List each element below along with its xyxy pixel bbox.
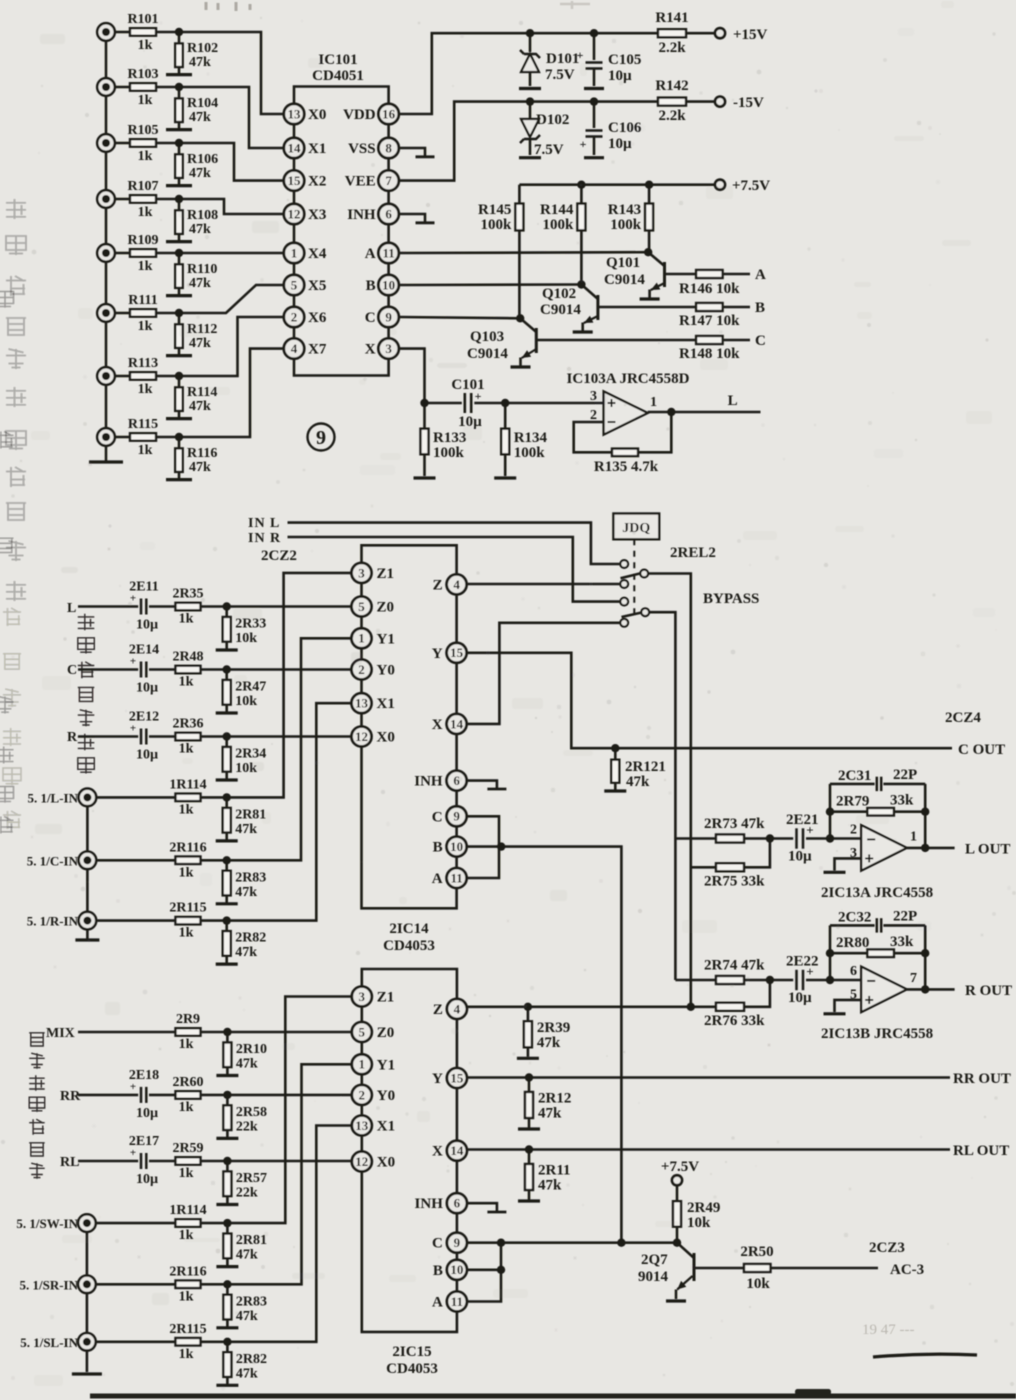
svg-text:X6: X6 bbox=[308, 310, 327, 326]
svg-text:1: 1 bbox=[359, 1057, 366, 1072]
svg-text:7.5V: 7.5V bbox=[534, 142, 564, 158]
svg-text:5. 1/R-IN: 5. 1/R-IN bbox=[27, 914, 79, 929]
svg-text:RR OUT: RR OUT bbox=[953, 1071, 1011, 1087]
svg-text:L: L bbox=[728, 393, 738, 409]
svg-text:+: + bbox=[130, 723, 136, 735]
svg-text:15: 15 bbox=[450, 1070, 464, 1085]
svg-text:2R48: 2R48 bbox=[172, 650, 203, 665]
svg-text:4: 4 bbox=[291, 341, 298, 356]
svg-text:12: 12 bbox=[355, 729, 368, 744]
svg-text:IC101: IC101 bbox=[318, 52, 357, 68]
svg-text:Z0: Z0 bbox=[377, 600, 395, 616]
svg-text:CD4051: CD4051 bbox=[312, 68, 364, 84]
svg-text:+: + bbox=[577, 48, 584, 62]
svg-text:2R82: 2R82 bbox=[236, 1352, 267, 1367]
svg-text:1k: 1k bbox=[179, 675, 194, 690]
svg-text:+7.5V: +7.5V bbox=[661, 1159, 699, 1175]
svg-text:10k: 10k bbox=[235, 631, 257, 646]
svg-text:L: L bbox=[67, 601, 76, 616]
svg-text:5: 5 bbox=[359, 1024, 366, 1039]
svg-text:B: B bbox=[433, 840, 443, 856]
svg-text:2R9: 2R9 bbox=[176, 1012, 200, 1027]
svg-text:1k: 1k bbox=[138, 149, 153, 164]
svg-text:2C32: 2C32 bbox=[838, 909, 871, 925]
svg-text:7.5V: 7.5V bbox=[545, 67, 575, 83]
svg-text:X0: X0 bbox=[308, 107, 326, 123]
svg-text:CD4053: CD4053 bbox=[383, 938, 435, 954]
svg-text:1k: 1k bbox=[179, 1166, 194, 1181]
svg-text:2: 2 bbox=[850, 823, 857, 838]
svg-text:MIX: MIX bbox=[46, 1026, 75, 1041]
svg-text:X0: X0 bbox=[377, 730, 395, 746]
svg-text:X4: X4 bbox=[308, 246, 327, 262]
svg-text:10µ: 10µ bbox=[788, 990, 812, 1006]
svg-text:X: X bbox=[432, 717, 443, 733]
svg-text:3: 3 bbox=[359, 989, 366, 1004]
svg-text:10: 10 bbox=[450, 1262, 463, 1277]
svg-text:2R115: 2R115 bbox=[169, 901, 206, 916]
svg-text:X: X bbox=[432, 1144, 443, 1160]
svg-text:Y0: Y0 bbox=[377, 1088, 395, 1104]
svg-text:100k: 100k bbox=[610, 217, 642, 233]
svg-text:2CZ3: 2CZ3 bbox=[869, 1240, 905, 1256]
svg-text:R134: R134 bbox=[514, 430, 548, 446]
svg-text:47k: 47k bbox=[538, 1106, 562, 1122]
svg-text:2Q7: 2Q7 bbox=[641, 1252, 668, 1268]
svg-text:1: 1 bbox=[650, 395, 657, 410]
svg-text:R111: R111 bbox=[128, 293, 158, 308]
svg-text:+: + bbox=[806, 964, 813, 979]
svg-text:2: 2 bbox=[359, 1087, 366, 1102]
svg-text:2R116: 2R116 bbox=[169, 1264, 206, 1279]
svg-text:5. 1/SW-IN: 5. 1/SW-IN bbox=[16, 1216, 78, 1231]
svg-text:13: 13 bbox=[355, 1118, 369, 1133]
svg-text:47k: 47k bbox=[538, 1178, 562, 1194]
svg-text:2R81: 2R81 bbox=[236, 1233, 267, 1248]
svg-text:C105: C105 bbox=[608, 52, 641, 68]
svg-text:6: 6 bbox=[454, 1196, 461, 1211]
svg-text:1k: 1k bbox=[179, 1347, 194, 1362]
svg-text:X1: X1 bbox=[308, 141, 326, 157]
svg-text:1: 1 bbox=[910, 830, 917, 845]
svg-text:3: 3 bbox=[385, 341, 392, 356]
svg-text:C9014: C9014 bbox=[540, 302, 581, 318]
svg-text:-15V: -15V bbox=[733, 95, 764, 111]
svg-text:2R82: 2R82 bbox=[235, 931, 266, 946]
svg-text:47k: 47k bbox=[189, 336, 211, 351]
svg-text:C: C bbox=[432, 809, 443, 825]
svg-text:3: 3 bbox=[358, 565, 365, 580]
svg-text:X0: X0 bbox=[377, 1155, 395, 1171]
svg-text:1k: 1k bbox=[179, 865, 194, 880]
svg-text:C9014: C9014 bbox=[467, 346, 508, 362]
svg-text:2R49: 2R49 bbox=[687, 1200, 720, 1216]
svg-text:2R80: 2R80 bbox=[836, 935, 869, 951]
svg-text:IN R: IN R bbox=[248, 531, 281, 546]
svg-text:+7.5V: +7.5V bbox=[732, 178, 770, 194]
svg-text:14: 14 bbox=[450, 716, 464, 731]
svg-text:6: 6 bbox=[850, 964, 857, 979]
svg-text:10µ: 10µ bbox=[136, 618, 158, 633]
svg-text:1k: 1k bbox=[138, 205, 153, 220]
svg-text:2R35: 2R35 bbox=[172, 587, 203, 602]
svg-text:X1: X1 bbox=[377, 696, 395, 712]
svg-text:10µ: 10µ bbox=[608, 136, 632, 152]
svg-text:16: 16 bbox=[382, 106, 396, 121]
svg-text:R108: R108 bbox=[187, 208, 218, 223]
svg-text:2R79: 2R79 bbox=[836, 794, 869, 810]
svg-text:13: 13 bbox=[355, 696, 369, 711]
svg-text:+: + bbox=[130, 656, 136, 668]
svg-text:2R50: 2R50 bbox=[740, 1244, 773, 1260]
svg-text:2IC13B JRC4558: 2IC13B JRC4558 bbox=[821, 1026, 933, 1042]
svg-text:2R36: 2R36 bbox=[172, 717, 203, 732]
svg-text:1R114: 1R114 bbox=[169, 1203, 206, 1218]
svg-text:22k: 22k bbox=[236, 1186, 258, 1201]
svg-text:Q102: Q102 bbox=[542, 286, 576, 302]
svg-text:2R34: 2R34 bbox=[235, 747, 266, 762]
svg-text:1k: 1k bbox=[179, 1037, 194, 1052]
svg-text:10µ: 10µ bbox=[788, 849, 812, 865]
svg-text:2R75 33k: 2R75 33k bbox=[704, 873, 765, 889]
svg-text:INH: INH bbox=[415, 1196, 444, 1212]
svg-text:2R74 47k: 2R74 47k bbox=[704, 958, 765, 974]
svg-text:Z: Z bbox=[433, 1002, 443, 1018]
svg-text:8: 8 bbox=[385, 140, 392, 155]
svg-text:2R121: 2R121 bbox=[625, 759, 666, 775]
svg-text:4: 4 bbox=[453, 577, 460, 592]
svg-text:2R57: 2R57 bbox=[236, 1171, 267, 1186]
svg-text:47k: 47k bbox=[537, 1035, 561, 1051]
svg-text:R141: R141 bbox=[655, 10, 688, 26]
svg-text:11: 11 bbox=[451, 1294, 463, 1309]
svg-text:1k: 1k bbox=[179, 612, 194, 627]
svg-text:Y1: Y1 bbox=[377, 1057, 395, 1073]
svg-text:47k: 47k bbox=[189, 166, 211, 181]
svg-text:10µ: 10µ bbox=[136, 681, 158, 696]
svg-text:R146 10k: R146 10k bbox=[679, 281, 740, 297]
svg-text:2R83: 2R83 bbox=[235, 870, 266, 885]
svg-text:X1: X1 bbox=[377, 1119, 395, 1135]
svg-text:R115: R115 bbox=[128, 417, 158, 432]
svg-text:VEE: VEE bbox=[345, 174, 376, 190]
svg-text:100k: 100k bbox=[481, 217, 513, 233]
svg-text:2R115: 2R115 bbox=[169, 1322, 206, 1337]
svg-text:+15V: +15V bbox=[733, 27, 768, 43]
svg-text:10k: 10k bbox=[235, 694, 257, 709]
svg-text:2IC14: 2IC14 bbox=[389, 921, 429, 937]
svg-text:2R39: 2R39 bbox=[537, 1020, 570, 1036]
svg-text:14: 14 bbox=[450, 1143, 464, 1158]
svg-text:2R12: 2R12 bbox=[538, 1091, 571, 1107]
svg-text:14: 14 bbox=[288, 140, 302, 155]
svg-text:RL: RL bbox=[60, 1155, 79, 1170]
svg-text:2R58: 2R58 bbox=[236, 1105, 267, 1120]
svg-text:INH: INH bbox=[414, 774, 443, 790]
svg-text:R102: R102 bbox=[187, 41, 218, 56]
svg-text:9: 9 bbox=[454, 1235, 461, 1250]
svg-text:2R10: 2R10 bbox=[236, 1042, 267, 1057]
svg-text:47k: 47k bbox=[189, 460, 211, 475]
svg-text:9: 9 bbox=[385, 309, 392, 324]
svg-text:1k: 1k bbox=[138, 38, 153, 53]
svg-text:7: 7 bbox=[910, 971, 917, 986]
svg-text:22k: 22k bbox=[236, 1119, 258, 1134]
svg-text:Q103: Q103 bbox=[470, 329, 504, 345]
svg-text:2R81: 2R81 bbox=[235, 807, 266, 822]
svg-text:R105: R105 bbox=[127, 123, 158, 138]
svg-text:22P: 22P bbox=[893, 908, 917, 924]
svg-text:Y0: Y0 bbox=[377, 663, 395, 679]
svg-text:X2: X2 bbox=[308, 174, 326, 190]
svg-text:2R76 33k: 2R76 33k bbox=[704, 1013, 765, 1029]
svg-text:9: 9 bbox=[316, 427, 326, 449]
svg-text:BYPASS: BYPASS bbox=[703, 591, 759, 607]
svg-text:2: 2 bbox=[291, 309, 298, 324]
svg-text:C9014: C9014 bbox=[604, 272, 645, 288]
svg-text:47k: 47k bbox=[189, 276, 211, 291]
svg-text:47k: 47k bbox=[189, 110, 211, 125]
svg-text:IN L: IN L bbox=[248, 516, 280, 531]
svg-text:10: 10 bbox=[450, 839, 463, 854]
svg-text:47k: 47k bbox=[235, 885, 257, 900]
svg-text:5. 1/C-IN: 5. 1/C-IN bbox=[27, 853, 79, 868]
svg-text:15: 15 bbox=[450, 645, 464, 660]
svg-text:2IC15: 2IC15 bbox=[392, 1344, 431, 1360]
svg-text:100k: 100k bbox=[514, 445, 546, 461]
svg-text:Z: Z bbox=[433, 577, 443, 593]
svg-text:47k: 47k bbox=[236, 1057, 258, 1072]
svg-text:A: A bbox=[755, 267, 766, 283]
svg-text:10µ: 10µ bbox=[136, 1106, 158, 1121]
svg-text:1k: 1k bbox=[138, 443, 153, 458]
svg-text:Z0: Z0 bbox=[377, 1025, 395, 1041]
svg-text:C: C bbox=[432, 1236, 443, 1252]
svg-text:22P: 22P bbox=[893, 767, 917, 783]
svg-text:R110: R110 bbox=[187, 262, 217, 277]
svg-text:R113: R113 bbox=[128, 356, 158, 371]
svg-text:R: R bbox=[67, 730, 78, 745]
svg-text:+: + bbox=[806, 823, 813, 838]
svg-text:2CZ4: 2CZ4 bbox=[945, 710, 981, 726]
svg-text:47k: 47k bbox=[626, 774, 650, 790]
svg-text:R144: R144 bbox=[540, 202, 574, 218]
svg-text:2R116: 2R116 bbox=[169, 840, 206, 855]
svg-text:Y: Y bbox=[432, 1071, 443, 1087]
svg-text:11: 11 bbox=[382, 245, 394, 260]
svg-text:AC-3: AC-3 bbox=[890, 1262, 924, 1278]
svg-text:B: B bbox=[755, 300, 765, 316]
svg-text:Q101: Q101 bbox=[606, 255, 640, 271]
svg-text:R OUT: R OUT bbox=[965, 983, 1012, 999]
svg-text:B: B bbox=[366, 278, 376, 294]
svg-text:47k: 47k bbox=[189, 55, 211, 70]
svg-text:47k: 47k bbox=[236, 1248, 258, 1263]
svg-text:5: 5 bbox=[358, 599, 365, 614]
svg-text:C: C bbox=[67, 663, 77, 678]
svg-text:47k: 47k bbox=[189, 222, 211, 237]
svg-text:5. 1/SL-IN: 5. 1/SL-IN bbox=[20, 1335, 78, 1350]
svg-text:R143: R143 bbox=[608, 202, 641, 218]
svg-text:1k: 1k bbox=[138, 259, 153, 274]
svg-text:R103: R103 bbox=[127, 67, 158, 82]
svg-text:X: X bbox=[365, 342, 376, 358]
svg-text:X5: X5 bbox=[308, 278, 326, 294]
svg-text:5. 1/L-IN: 5. 1/L-IN bbox=[27, 790, 78, 805]
svg-text:R106: R106 bbox=[187, 152, 218, 167]
svg-text:Y: Y bbox=[432, 646, 443, 662]
svg-text:1k: 1k bbox=[179, 802, 194, 817]
svg-text:Z1: Z1 bbox=[377, 566, 395, 582]
svg-text:A: A bbox=[432, 871, 443, 887]
svg-text:47k: 47k bbox=[236, 1366, 258, 1381]
svg-text:2REL2: 2REL2 bbox=[670, 545, 716, 561]
svg-text:1k: 1k bbox=[138, 382, 153, 397]
svg-text:JDQ: JDQ bbox=[622, 521, 650, 536]
svg-text:1k: 1k bbox=[179, 1289, 194, 1304]
svg-text:10µ: 10µ bbox=[136, 1172, 158, 1187]
svg-text:X3: X3 bbox=[308, 207, 326, 223]
svg-text:RL OUT: RL OUT bbox=[953, 1143, 1009, 1159]
svg-text:47k: 47k bbox=[189, 399, 211, 414]
svg-text:C: C bbox=[365, 310, 376, 326]
svg-text:1: 1 bbox=[358, 631, 365, 646]
svg-text:33k: 33k bbox=[890, 793, 914, 809]
svg-text:2C31: 2C31 bbox=[838, 768, 871, 784]
svg-text:CD4053: CD4053 bbox=[386, 1361, 438, 1377]
svg-text:5. 1/SR-IN: 5. 1/SR-IN bbox=[19, 1277, 78, 1292]
svg-text:9014: 9014 bbox=[638, 1269, 669, 1285]
svg-text:VDD: VDD bbox=[343, 107, 376, 123]
svg-text:13: 13 bbox=[288, 106, 302, 121]
svg-text:2IC13A JRC4558: 2IC13A JRC4558 bbox=[821, 885, 933, 901]
svg-text:6: 6 bbox=[385, 206, 392, 221]
svg-text:47k: 47k bbox=[236, 1309, 258, 1324]
svg-text:47k: 47k bbox=[235, 945, 257, 960]
svg-text:B: B bbox=[433, 1263, 443, 1279]
svg-text:+: + bbox=[580, 137, 587, 151]
svg-text:C: C bbox=[755, 333, 766, 349]
svg-text:INH: INH bbox=[347, 207, 376, 223]
svg-text:R145: R145 bbox=[478, 202, 511, 218]
svg-text:15: 15 bbox=[288, 173, 302, 188]
svg-text:5: 5 bbox=[291, 277, 298, 292]
svg-text:R107: R107 bbox=[127, 179, 158, 194]
svg-text:2R83: 2R83 bbox=[236, 1294, 267, 1309]
svg-text:2R60: 2R60 bbox=[172, 1075, 203, 1090]
svg-text:A: A bbox=[365, 246, 376, 262]
svg-text:D102: D102 bbox=[536, 112, 569, 128]
svg-text:100k: 100k bbox=[543, 217, 575, 233]
svg-text:100k: 100k bbox=[433, 445, 465, 461]
svg-text:1k: 1k bbox=[138, 319, 153, 334]
svg-text:1k: 1k bbox=[179, 926, 194, 941]
svg-text:+: + bbox=[130, 1147, 136, 1159]
svg-text:2CZ2: 2CZ2 bbox=[261, 548, 297, 564]
svg-text:11: 11 bbox=[450, 870, 462, 885]
svg-text:4: 4 bbox=[454, 1001, 461, 1016]
svg-text:47k: 47k bbox=[235, 822, 257, 837]
svg-text:2R73 47k: 2R73 47k bbox=[704, 816, 765, 832]
svg-text:R135 4.7k: R135 4.7k bbox=[594, 459, 659, 475]
svg-text:RR: RR bbox=[60, 1089, 81, 1104]
svg-text:IC103A JRC4558D: IC103A JRC4558D bbox=[567, 371, 690, 387]
svg-text:L OUT: L OUT bbox=[965, 841, 1010, 857]
svg-text:2.2k: 2.2k bbox=[658, 40, 686, 56]
svg-text:R101: R101 bbox=[127, 12, 158, 27]
svg-text:X7: X7 bbox=[308, 342, 327, 358]
svg-text:R104: R104 bbox=[187, 96, 218, 111]
svg-text:10k: 10k bbox=[746, 1276, 770, 1292]
svg-text:R116: R116 bbox=[187, 446, 217, 461]
svg-text:12: 12 bbox=[355, 1154, 368, 1169]
svg-text:19 47 ---: 19 47 --- bbox=[862, 1322, 915, 1338]
svg-text:Y1: Y1 bbox=[377, 631, 395, 647]
svg-text:D101: D101 bbox=[546, 51, 579, 67]
svg-text:10k: 10k bbox=[687, 1215, 711, 1231]
svg-text:C OUT: C OUT bbox=[958, 742, 1005, 758]
svg-text:2.2k: 2.2k bbox=[658, 108, 686, 124]
svg-text:1k: 1k bbox=[179, 1100, 194, 1115]
svg-text:9: 9 bbox=[453, 809, 460, 824]
svg-text:12: 12 bbox=[288, 206, 301, 221]
svg-text:33k: 33k bbox=[890, 934, 914, 950]
svg-text:7: 7 bbox=[385, 173, 392, 188]
svg-text:VSS: VSS bbox=[348, 141, 376, 157]
svg-text:2R11: 2R11 bbox=[538, 1163, 571, 1179]
svg-text:R147 10k: R147 10k bbox=[679, 313, 740, 329]
svg-text:R133: R133 bbox=[433, 430, 466, 446]
svg-text:C101: C101 bbox=[451, 377, 484, 393]
svg-text:A: A bbox=[432, 1295, 443, 1311]
svg-text:10µ: 10µ bbox=[136, 748, 158, 763]
svg-text:2R59: 2R59 bbox=[172, 1141, 203, 1156]
svg-text:+: + bbox=[130, 1081, 136, 1093]
svg-text:1k: 1k bbox=[138, 93, 153, 108]
svg-text:R142: R142 bbox=[655, 78, 688, 94]
svg-text:Z1: Z1 bbox=[377, 990, 395, 1006]
svg-text:1k: 1k bbox=[179, 742, 194, 757]
svg-text:10: 10 bbox=[382, 277, 395, 292]
svg-text:R109: R109 bbox=[127, 233, 158, 248]
svg-text:1: 1 bbox=[291, 245, 298, 260]
